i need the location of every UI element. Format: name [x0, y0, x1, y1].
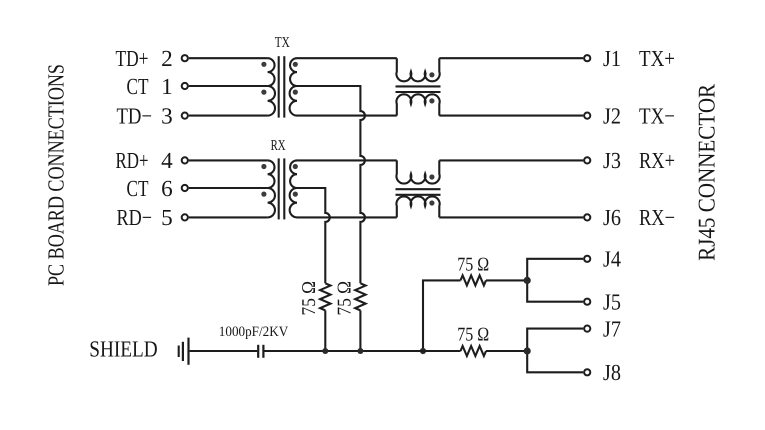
wire T1 secondary bottom to choke L1: [297, 115, 397, 117]
svg-text:J2: J2: [603, 103, 621, 128]
wire pin 5 to transformer: [189, 216, 268, 218]
polarity dot L2 upper: [429, 174, 434, 179]
svg-text:6: 6: [161, 176, 173, 201]
svg-text:RD−: RD−: [117, 205, 153, 230]
svg-text:75 Ω: 75 Ω: [334, 281, 355, 316]
wire T2 secondary bottom to choke L2: [297, 216, 397, 218]
svg-text:5: 5: [161, 205, 173, 230]
transformer T2 primary winding lower: [268, 188, 275, 217]
transformer T2 core: [278, 158, 280, 219]
terminal circle J4: [584, 256, 590, 262]
shield chassis bar medium: [182, 342, 184, 361]
choke L2 lower winding: [396, 196, 439, 217]
choke L1 core: [396, 85, 441, 87]
transformer T2 secondary winding lower: [290, 188, 297, 217]
svg-text:1000pF/2KV: 1000pF/2KV: [219, 324, 289, 340]
svg-text:J8: J8: [603, 360, 621, 385]
junction dot R1 on shield bus: [322, 348, 328, 354]
polarity dot T2 secondary lower: [293, 192, 298, 197]
resistor R2 75ohm (vertical): [355, 283, 365, 310]
terminal circle pin 3 (TD−): [182, 113, 188, 119]
svg-text:TX+: TX+: [639, 46, 675, 71]
svg-text:TD+: TD+: [116, 46, 149, 71]
terminal circle J6: [584, 214, 590, 220]
wire choke L1 to J1: [439, 57, 583, 59]
wire capacitor C1 to shield bus: [265, 350, 424, 352]
svg-text:75 Ω: 75 Ω: [299, 281, 320, 316]
polarity dot T2 primary upper: [261, 164, 266, 169]
svg-text:75 Ω: 75 Ω: [457, 255, 489, 276]
wire T1 secondary top to choke L1: [297, 57, 397, 59]
polarity dot T1 secondary lower: [293, 90, 298, 95]
svg-text:4: 4: [161, 148, 173, 173]
choke L2 upper winding: [396, 160, 439, 183]
svg-text:J7: J7: [603, 316, 621, 341]
shield chassis bar small: [178, 346, 180, 358]
svg-text:TX: TX: [275, 35, 290, 51]
svg-text:RD+: RD+: [116, 148, 149, 173]
terminal circle pin 4 (RD+): [182, 157, 188, 163]
polarity dot L1 upper: [429, 72, 434, 77]
transformer T1 primary winding upper: [268, 58, 275, 86]
junction dot J7/J8 node: [524, 347, 531, 354]
terminal circle pin 2 (TD+): [182, 55, 188, 61]
svg-text:TD−: TD−: [117, 103, 153, 128]
svg-text:J6: J6: [603, 205, 621, 230]
terminal circle pin 5 (RD−): [182, 214, 188, 220]
wire choke L2 to J3: [439, 159, 583, 161]
svg-text:CT: CT: [127, 176, 149, 201]
wire 75ohm R4 to junction: [486, 350, 527, 352]
svg-text:TX−: TX−: [639, 103, 675, 128]
svg-text:RX+: RX+: [639, 148, 675, 173]
polarity dot L1 lower: [429, 98, 434, 103]
wire pin 6 to transformer: [189, 187, 268, 189]
wire T1 secondary CT down (hops over J2,J3,J6 rows): [297, 86, 365, 283]
resistor R1 75ohm (vertical): [320, 283, 330, 310]
svg-text:SHIELD: SHIELD: [89, 337, 157, 362]
choke L1 upper winding: [396, 58, 439, 81]
resistor R4 75ohm (horizontal): [461, 346, 487, 356]
shield chassis bar large: [187, 338, 189, 365]
wire pin 1 to transformer: [189, 85, 268, 87]
wire choke L1 to J2: [439, 115, 583, 117]
choke L2 core: [396, 188, 441, 190]
choke L1 lower winding: [396, 94, 439, 115]
terminal circle pin 6 (CT): [182, 185, 188, 191]
svg-text:J5: J5: [603, 290, 621, 315]
svg-text:CT: CT: [127, 74, 149, 99]
svg-text:RX−: RX−: [639, 205, 675, 230]
svg-text:J3: J3: [603, 148, 621, 173]
svg-text:1: 1: [161, 74, 173, 99]
terminal circle J5: [584, 299, 590, 305]
wire 75ohm R3 to junction: [486, 279, 527, 281]
wire pin 4 to transformer: [189, 159, 268, 161]
polarity dot T1 primary upper: [261, 62, 266, 67]
junction dot J4/J5 node: [524, 277, 531, 284]
svg-text:2: 2: [161, 46, 173, 71]
terminal circle J8: [584, 369, 590, 375]
transformer T2 primary winding upper: [268, 160, 275, 188]
wire pin 2 to transformer: [189, 57, 268, 59]
wire R4 left lead: [423, 350, 461, 352]
terminal circle pin 1 (CT): [182, 83, 188, 89]
terminal circle J3: [584, 157, 590, 163]
transformer T1 core: [278, 56, 280, 117]
terminal circle J1: [584, 55, 590, 61]
wire left junction column to R3: [423, 280, 461, 351]
junction dot shield bus / R3 branch: [420, 348, 426, 354]
transformer T2 secondary winding upper: [290, 160, 297, 188]
svg-text:PC BOARD CONNECTIONS: PC BOARD CONNECTIONS: [44, 64, 69, 286]
terminal circle J2: [584, 113, 590, 119]
polarity dot T2 secondary upper: [293, 164, 298, 169]
polarity dot T1 secondary upper: [293, 62, 298, 67]
capacitor C1 left plate: [257, 345, 259, 358]
svg-text:J1: J1: [603, 46, 621, 71]
wire choke L2 to J6: [439, 216, 583, 218]
transformer T1 secondary winding upper: [290, 58, 297, 86]
svg-text:75 Ω: 75 Ω: [457, 325, 489, 346]
wire resistor R1 to shield bus: [324, 310, 326, 351]
svg-text:RX: RX: [271, 138, 286, 154]
wire pin 3 to transformer: [189, 115, 268, 117]
junction dot R2 on shield bus: [357, 348, 363, 354]
polarity dot T1 primary lower: [261, 90, 266, 95]
resistor R3 75ohm (horizontal): [461, 275, 487, 285]
svg-text:J4: J4: [603, 247, 621, 272]
capacitor C1 right plate: [262, 345, 264, 358]
svg-text:3: 3: [161, 103, 173, 128]
wire shield to capacitor C1: [190, 350, 258, 352]
transformer T1 primary winding lower: [268, 86, 275, 116]
wire T2 secondary CT down (hop over J6 row): [297, 188, 330, 283]
wire junction to J7 and J8: [527, 329, 583, 373]
wire junction to J4 and J5: [527, 259, 583, 302]
svg-text:RJ45 CONNECTOR: RJ45 CONNECTOR: [695, 84, 721, 261]
transformer T1 secondary winding lower: [290, 86, 297, 116]
wire resistor R2 to shield bus: [359, 310, 361, 351]
wire T2 secondary top to choke L2: [297, 159, 397, 161]
polarity dot T2 primary lower: [261, 192, 266, 197]
polarity dot L2 lower: [429, 200, 434, 205]
terminal circle J7: [584, 326, 590, 332]
